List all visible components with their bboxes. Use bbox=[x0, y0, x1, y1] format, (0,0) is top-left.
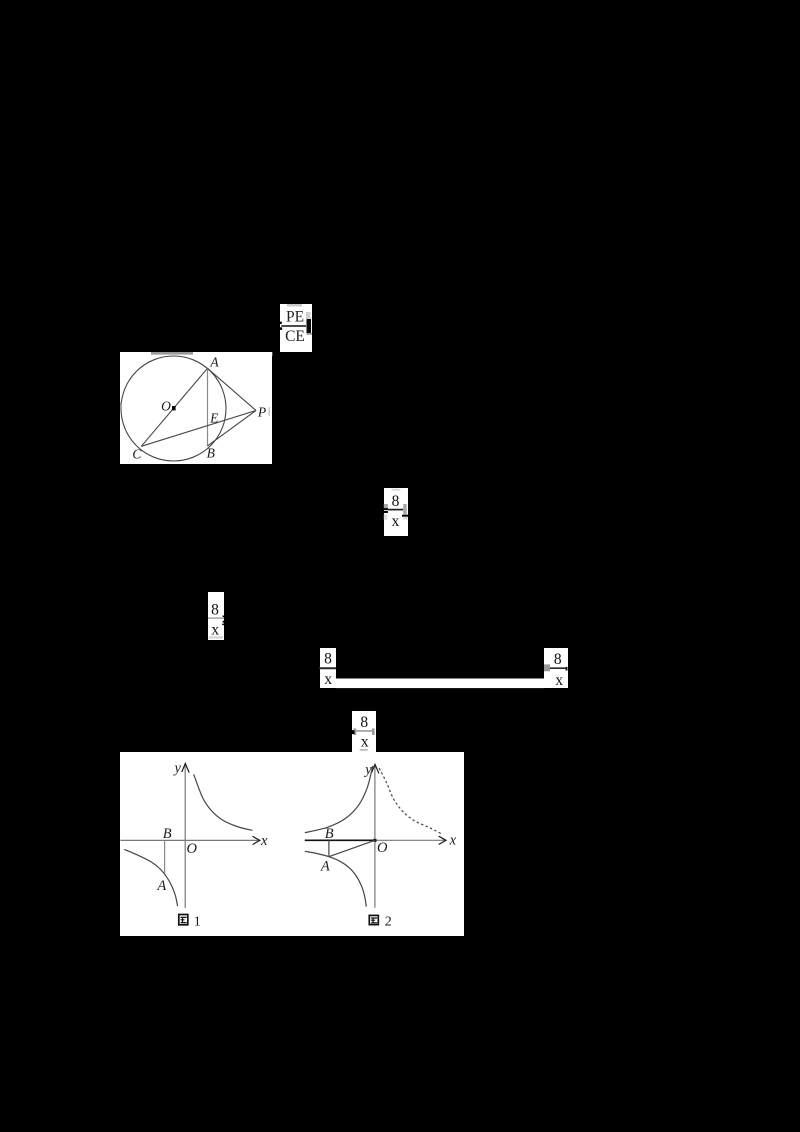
svg-text:PE: PE bbox=[286, 309, 304, 326]
svg-text:CE: CE bbox=[285, 328, 305, 345]
svg-text:x: x bbox=[211, 622, 219, 639]
svg-text:2: 2 bbox=[385, 914, 392, 929]
svg-text:x: x bbox=[361, 734, 369, 751]
svg-text:8: 8 bbox=[211, 601, 219, 618]
svg-text:E: E bbox=[209, 411, 219, 426]
svg-text:O: O bbox=[377, 840, 388, 856]
svg-text:x: x bbox=[260, 833, 268, 849]
svg-text:A: A bbox=[156, 878, 166, 894]
svg-text:1: 1 bbox=[194, 915, 201, 930]
svg-text:B: B bbox=[325, 826, 334, 842]
svg-text:8: 8 bbox=[360, 714, 368, 731]
svg-text:O: O bbox=[161, 399, 171, 414]
svg-text:x: x bbox=[324, 671, 332, 688]
svg-text:x: x bbox=[555, 672, 563, 689]
svg-text:x: x bbox=[392, 513, 400, 530]
svg-text:B: B bbox=[163, 826, 172, 842]
svg-text:A: A bbox=[320, 858, 330, 874]
svg-text:A: A bbox=[209, 355, 219, 370]
svg-text:B: B bbox=[207, 446, 215, 461]
svg-text:8: 8 bbox=[392, 493, 400, 510]
svg-text:x: x bbox=[449, 833, 457, 849]
svg-text:O: O bbox=[187, 841, 198, 857]
svg-text:y: y bbox=[172, 761, 181, 777]
svg-text:8: 8 bbox=[324, 650, 332, 667]
svg-text:P: P bbox=[257, 405, 266, 420]
svg-text:8: 8 bbox=[554, 651, 562, 668]
svg-text:C: C bbox=[132, 447, 142, 462]
